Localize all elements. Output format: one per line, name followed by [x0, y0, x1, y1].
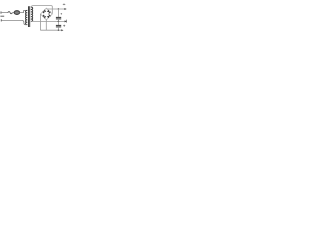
diode D3 bottom-left: [42, 14, 46, 18]
plus polarity C2: [63, 25, 65, 27]
wire bridge bottom vertex down: [45, 20, 47, 30]
junction node mid: [58, 21, 60, 23]
wire: [20, 12, 24, 14]
wire jog from primary bottom: [22, 20, 27, 24]
mid output rail: [31, 20, 65, 22]
mid output arrow: [65, 20, 67, 22]
wire jog to primary top: [24, 11, 28, 13]
diode D1 top-left: [42, 10, 46, 14]
transformer T1 primary winding: [25, 10, 27, 24]
capacitor C2 plates: [56, 24, 61, 26]
capacitor C1 plates: [56, 16, 61, 18]
wire live from plug: [1, 12, 8, 14]
top output arrow: [64, 8, 66, 10]
wire: [12, 12, 14, 14]
plug middle pin: [0, 15, 4, 17]
diode D4 bottom-right: [47, 14, 51, 18]
fuse body F1: [14, 11, 19, 15]
plus label top output: [63, 4, 66, 6]
wire neutral from plug: [1, 19, 22, 21]
capacitor C1 lead: [57, 9, 59, 17]
diode D2 top-right: [47, 10, 51, 14]
capacitor C2 lead lower: [57, 27, 59, 30]
transformer T1 secondary winding: [31, 7, 33, 21]
plug pin cap top: [0, 12, 2, 14]
fuse element squiggle: [8, 12, 12, 14]
transformer core: [28, 6, 30, 27]
wire secondary top to bridge right vertex: [31, 6, 52, 14]
mid terminal bar: [66, 20, 68, 23]
bottom output arrow: [61, 29, 63, 31]
bottom output rail: [40, 29, 61, 31]
plug pin cap bottom: [0, 19, 2, 21]
bridge rectifier outline: [41, 8, 53, 20]
junction node top: [58, 8, 59, 9]
capacitor C2 lead: [57, 21, 59, 25]
junction node bottom: [58, 30, 59, 31]
top output rail: [47, 8, 65, 10]
plus polarity C1: [61, 13, 63, 15]
wire bridge left vertex down: [39, 14, 41, 30]
capacitor C1 lead lower: [57, 19, 59, 21]
